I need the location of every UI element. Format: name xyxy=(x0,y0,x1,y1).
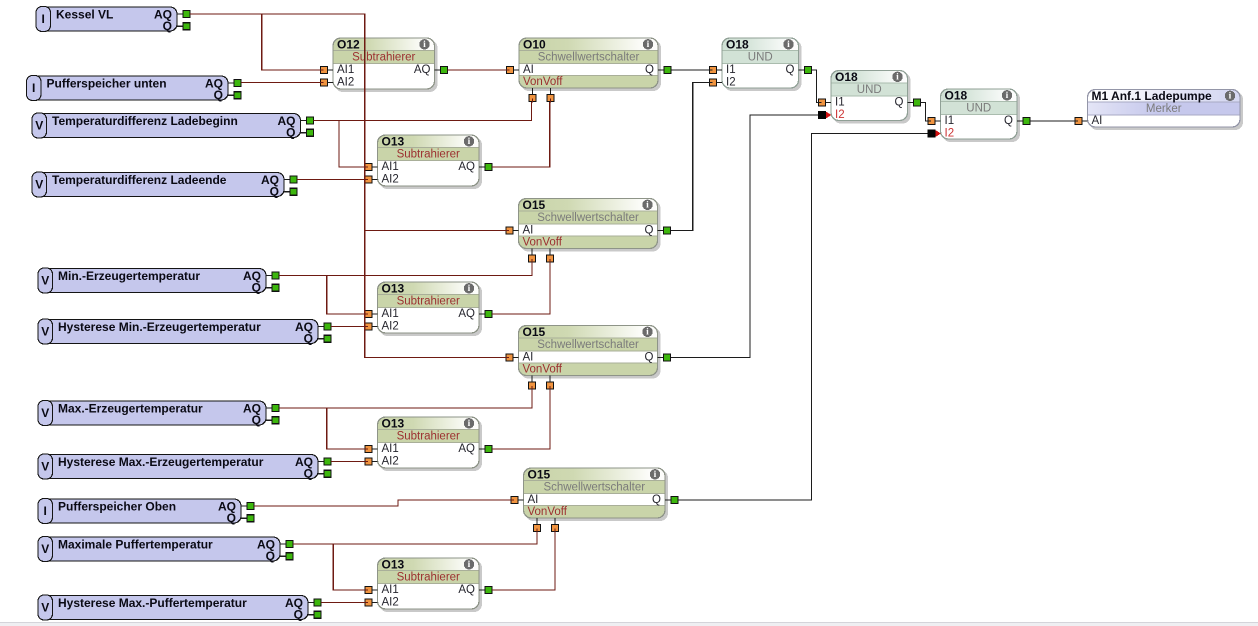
svg-text:Q: Q xyxy=(252,413,261,427)
svg-text:Schwellwertschalter: Schwellwertschalter xyxy=(538,52,640,64)
wire O13 AQ to O15 Voff (max Puffer) xyxy=(492,532,555,591)
svg-text:Pufferspeicher unten: Pufferspeicher unten xyxy=(47,77,167,91)
svg-text:Q: Q xyxy=(304,332,313,346)
svg-text:V: V xyxy=(35,178,43,192)
svg-text:AI: AI xyxy=(523,225,534,237)
svg-text:AI2: AI2 xyxy=(382,321,399,333)
svg-text:I: I xyxy=(32,81,35,95)
svg-text:UND: UND xyxy=(966,103,991,115)
svg-text:Merker: Merker xyxy=(1146,103,1182,115)
wire O12 AQ to O10 AI xyxy=(448,69,507,71)
svg-text:Subtrahierer: Subtrahierer xyxy=(397,572,460,584)
wire O18 #3 Q to M1 AI xyxy=(1030,120,1075,122)
AND gate O18 #1 (O18 UND) xyxy=(709,38,812,91)
svg-text:AI: AI xyxy=(528,494,539,506)
svg-text:VonVoff: VonVoff xyxy=(523,363,563,375)
svg-text:AI2: AI2 xyxy=(337,77,354,89)
svg-text:VonVoff: VonVoff xyxy=(528,506,568,518)
svg-text:i: i xyxy=(468,284,471,294)
wire O15 Q (max Puffer) to O18 #3 I2 (cut marker) xyxy=(678,134,928,501)
svg-text:O15: O15 xyxy=(528,468,551,482)
svg-text:Q: Q xyxy=(304,467,313,481)
svg-text:I: I xyxy=(42,12,45,26)
svg-text:Q: Q xyxy=(266,549,275,563)
wire Hysterese Min.-Erzeugertemperatur AQ to O13 AI2 xyxy=(331,326,365,328)
svg-text:i: i xyxy=(1006,91,1009,101)
svg-text:Temperaturdifferenz Ladebeginn: Temperaturdifferenz Ladebeginn xyxy=(52,114,238,128)
svg-text:I2: I2 xyxy=(835,109,845,121)
input block V Hysterese Max.-Puffertemperatur xyxy=(38,595,321,622)
svg-text:Max.-Erzeugertemperatur: Max.-Erzeugertemperatur xyxy=(58,402,203,416)
wire Pufferspeicher Oben AQ to O15 AI (max Puffer) xyxy=(254,500,511,506)
svg-text:O12: O12 xyxy=(337,38,360,52)
wire Kessel VL AQ trunk (to O12 AI1, O15 AI inputs) xyxy=(190,14,506,358)
svg-text:i: i xyxy=(647,40,650,50)
svg-text:Kessel VL: Kessel VL xyxy=(56,8,113,22)
svg-text:i: i xyxy=(468,419,471,429)
bottom canvas edge xyxy=(0,623,1258,626)
wire O10 Q to O18 I1 xyxy=(672,69,710,71)
svg-text:AI: AI xyxy=(523,352,534,364)
svg-text:V: V xyxy=(35,119,43,133)
svg-text:Temperaturdifferenz Ladeende: Temperaturdifferenz Ladeende xyxy=(52,173,227,187)
svg-text:Schwellwertschalter: Schwellwertschalter xyxy=(537,339,639,351)
input block V Temperaturdifferenz Ladebeginn xyxy=(32,113,314,140)
wire O18 #2 Q to O18 #3 I1 xyxy=(921,103,928,122)
svg-text:Q: Q xyxy=(652,494,661,506)
flag M1 Anf.1 Ladepumpe (M1 Anf.1 Ladepumpe Merker) xyxy=(1074,89,1243,130)
svg-text:i: i xyxy=(468,560,471,570)
svg-text:i: i xyxy=(423,40,426,50)
input block I Pufferspeicher Oben xyxy=(38,499,254,526)
svg-text:AI2: AI2 xyxy=(382,597,399,609)
svg-text:Q: Q xyxy=(214,88,223,102)
input block V Temperaturdifferenz Ladeende xyxy=(32,172,297,199)
svg-text:Subtrahierer: Subtrahierer xyxy=(397,296,460,308)
svg-text:M1 Anf.1 Ladepumpe: M1 Anf.1 Ladepumpe xyxy=(1092,89,1213,103)
subtractor O13 (Max-Puffer) (O13 Subtrahierer) xyxy=(364,558,492,612)
threshold switch O15 (min Erzeuger) (O15 Schwellwertschalter) xyxy=(505,198,671,263)
threshold switch O15 (max Puffer) (O15 Schwellwertschalter) xyxy=(510,468,678,533)
svg-text:AI1: AI1 xyxy=(337,64,354,76)
wire Max.-Erzeugertemperatur AQ to O13 AI1 and O15 Von xyxy=(279,389,532,449)
input block I Kessel VL xyxy=(36,7,190,34)
input block V Max.-Erzeugertemperatur xyxy=(38,401,279,428)
svg-text:AI1: AI1 xyxy=(382,308,399,320)
svg-text:O13: O13 xyxy=(382,135,405,149)
svg-text:AQ: AQ xyxy=(458,308,475,320)
svg-text:i: i xyxy=(468,137,471,147)
svg-text:AQ: AQ xyxy=(458,443,475,455)
svg-text:Hysterese Min.-Erzeugertempera: Hysterese Min.-Erzeugertemperatur xyxy=(58,320,261,334)
svg-text:i: i xyxy=(646,201,649,211)
svg-text:V: V xyxy=(41,406,49,420)
wire O15 Q (min Erzeuger) to O18 I2 xyxy=(671,83,709,231)
wire O13 AQ to O15 Voff (max Erzeuger) xyxy=(492,389,550,449)
wire Pufferspeicher unten AQ to O12 AI2 xyxy=(241,82,320,84)
threshold switch O15 (max Erzeuger) (O15 Schwellwertschalter) xyxy=(505,325,671,390)
svg-text:Schwellwertschalter: Schwellwertschalter xyxy=(537,212,639,224)
svg-text:AQ: AQ xyxy=(458,161,475,173)
svg-text:AI2: AI2 xyxy=(382,174,399,186)
svg-text:AI1: AI1 xyxy=(382,443,399,455)
svg-text:Q: Q xyxy=(227,511,236,525)
svg-text:O13: O13 xyxy=(382,282,405,296)
svg-text:i: i xyxy=(896,73,899,83)
svg-text:Q: Q xyxy=(645,225,654,237)
svg-text:AQ: AQ xyxy=(458,584,475,596)
svg-text:V: V xyxy=(41,601,49,615)
svg-text:AI: AI xyxy=(1092,115,1103,127)
svg-text:O10: O10 xyxy=(523,38,546,52)
svg-text:O18: O18 xyxy=(835,70,858,84)
svg-text:Q: Q xyxy=(645,64,654,76)
wire Hysterese Max.-Puffertemperatur AQ to O13 AI2 xyxy=(321,602,365,604)
svg-text:I: I xyxy=(44,504,47,518)
svg-text:O15: O15 xyxy=(523,198,546,212)
input block V Hysterese Max.-Erzeugertemperatur xyxy=(38,454,331,481)
subtractor O13 (Min-Erzeuger) (O13 Subtrahierer) xyxy=(364,282,492,336)
svg-text:Q: Q xyxy=(286,126,295,140)
svg-text:Min.-Erzeugertemperatur: Min.-Erzeugertemperatur xyxy=(58,269,200,283)
svg-text:AI1: AI1 xyxy=(382,161,399,173)
input block V Hysterese Min.-Erzeugertemperatur xyxy=(38,319,331,346)
subtractor O12 (O12 Subtrahierer) xyxy=(320,38,448,92)
wire Maximale Puffertemperatur AQ to O13 AI1 and O15 Von xyxy=(293,532,537,591)
svg-text:V: V xyxy=(41,542,49,556)
AND gate O18 #3 (O18 UND) xyxy=(927,89,1030,142)
svg-text:I2: I2 xyxy=(726,77,736,89)
wire O13 AQ to O10 Voff xyxy=(492,102,550,167)
svg-text:Q: Q xyxy=(645,352,654,364)
svg-text:Subtrahierer: Subtrahierer xyxy=(397,149,460,161)
wire Hysterese Max.-Erzeugertemperatur AQ to O13 AI2 xyxy=(331,461,365,463)
svg-text:AI: AI xyxy=(523,64,534,76)
input block V Maximale Puffertemperatur xyxy=(38,537,293,564)
wire O18 #1 Q to O18 #2 I1 xyxy=(812,70,819,103)
wire Temperaturdifferenz Ladebeginn AQ to O13 AI1 and O10 Von xyxy=(314,102,532,167)
svg-text:I1: I1 xyxy=(726,64,736,76)
svg-text:Maximale Puffertemperatur: Maximale Puffertemperatur xyxy=(58,538,213,552)
svg-text:V: V xyxy=(41,460,49,474)
wire O15 Q (max Erzeuger) to O18 #2 I2 (cut marker) xyxy=(671,115,818,358)
svg-text:i: i xyxy=(646,328,649,338)
AND gate O18 #2 (O18 UND) xyxy=(818,70,921,123)
svg-text:Q: Q xyxy=(895,97,904,109)
svg-text:O13: O13 xyxy=(382,558,405,572)
svg-text:Pufferspeicher Oben: Pufferspeicher Oben xyxy=(58,500,176,514)
svg-text:i: i xyxy=(787,40,790,50)
svg-text:Hysterese Max.-Puffertemperatu: Hysterese Max.-Puffertemperatur xyxy=(58,596,247,610)
svg-text:O18: O18 xyxy=(945,89,968,103)
svg-text:Q: Q xyxy=(270,185,279,199)
subtractor O13 (Max-Erzeuger) (O13 Subtrahierer) xyxy=(364,417,492,471)
input block V Min.-Erzeugertemperatur xyxy=(38,268,279,295)
svg-text:AQ: AQ xyxy=(414,64,431,76)
threshold switch O10 (O10 Schwellwertschalter) xyxy=(506,38,672,103)
svg-text:Q: Q xyxy=(786,64,795,76)
svg-text:Q: Q xyxy=(294,608,303,622)
svg-text:Subtrahierer: Subtrahierer xyxy=(397,431,460,443)
svg-text:V: V xyxy=(41,325,49,339)
input block I Pufferspeicher unten xyxy=(27,76,242,103)
svg-text:Q: Q xyxy=(252,281,261,295)
svg-text:VonVoff: VonVoff xyxy=(523,236,563,248)
svg-text:i: i xyxy=(1229,92,1232,102)
svg-text:Hysterese Max.-Erzeugertempera: Hysterese Max.-Erzeugertemperatur xyxy=(58,455,264,469)
svg-text:Subtrahierer: Subtrahierer xyxy=(352,52,415,64)
svg-text:V: V xyxy=(41,274,49,288)
svg-text:O15: O15 xyxy=(523,325,546,339)
svg-text:I2: I2 xyxy=(945,128,955,140)
svg-text:I1: I1 xyxy=(945,115,955,127)
wire O13 AQ to O15 Voff (min Erzeuger) xyxy=(492,262,550,314)
svg-text:AI2: AI2 xyxy=(382,456,399,468)
svg-text:i: i xyxy=(654,470,657,480)
svg-text:I1: I1 xyxy=(835,97,845,109)
svg-text:UND: UND xyxy=(857,84,882,96)
svg-text:O13: O13 xyxy=(382,417,405,431)
wire Min.-Erzeugertemperatur AQ to O13 AI1 and O15 Von xyxy=(279,262,532,314)
svg-text:Q: Q xyxy=(1004,115,1013,127)
svg-text:AI1: AI1 xyxy=(382,584,399,596)
svg-text:VonVoff: VonVoff xyxy=(523,76,563,88)
svg-text:Q: Q xyxy=(163,19,172,33)
svg-text:UND: UND xyxy=(748,52,773,64)
wire Temperaturdifferenz Ladeende AQ to O13 AI2 xyxy=(297,179,365,181)
svg-text:O18: O18 xyxy=(726,38,749,52)
svg-text:Schwellwertschalter: Schwellwertschalter xyxy=(543,482,645,494)
subtractor O13 (Ladebeginn/Ladeende) (O13 Subtrahierer) xyxy=(364,135,492,189)
